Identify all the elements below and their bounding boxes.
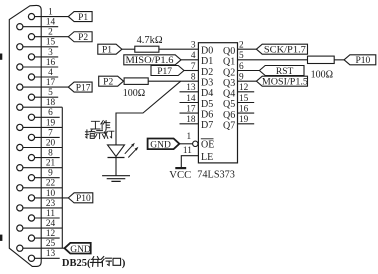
connector J1 DB25 outline [9, 5, 41, 266]
inversion bubble U1 pin 1 [193, 141, 198, 146]
svg-text:Q6: Q6 [223, 110, 235, 121]
DB25 pin 11 [28, 209, 59, 221]
svg-text:Q2: Q2 [223, 67, 235, 78]
flag MISO/P1.6 (to U1 pin 4 D1) [124, 55, 181, 65]
DB25 pin 4 [28, 68, 58, 80]
DB25 pin 19 [17, 118, 63, 130]
resistor R3 100R [308, 56, 335, 63]
wire U1 pin 6 (Q2) to RST flag [238, 70, 260, 72]
label "work indicator" line 1 (gong zuo) [91, 121, 100, 129]
wire GND flag to bubble [179, 143, 192, 145]
flag P2 (DB25 pin 2) [68, 32, 92, 42]
svg-text:12: 12 [46, 229, 56, 239]
flag GND (DB25 pin 25) [65, 243, 91, 254]
svg-text:Q7: Q7 [223, 121, 235, 132]
flag GND (to U1 pin 1 OE) [148, 139, 180, 150]
flag P1 (DB25 pin 1) [68, 12, 92, 22]
svg-text:24: 24 [46, 219, 56, 229]
DB25 pin 12 [28, 229, 59, 241]
svg-text:Q1: Q1 [223, 57, 235, 68]
svg-text:P17: P17 [76, 83, 91, 93]
svg-text:MOSI/P1.5: MOSI/P1.5 [262, 78, 308, 88]
svg-text:Q5: Q5 [223, 99, 235, 110]
DB25 pin 14 [17, 18, 59, 30]
wire R1 to U1 pin 3 (D0) [159, 48, 199, 50]
stub U1 pin 14 (D5) [180, 102, 199, 104]
svg-text:D4: D4 [201, 88, 213, 99]
svg-text:17: 17 [186, 105, 196, 115]
svg-text:14: 14 [46, 18, 56, 28]
svg-text:3: 3 [48, 48, 53, 58]
DB25 pin 15 [17, 38, 59, 50]
DB25 pin 7 [28, 128, 59, 140]
flag MOSI/P1.5 [256, 76, 307, 86]
DB25 pin 17 [17, 78, 69, 90]
svg-text:18: 18 [46, 98, 56, 108]
svg-text:7: 7 [191, 62, 196, 72]
DB25 pin 8 [28, 149, 59, 161]
DB25 pin 1 [28, 8, 68, 20]
DB25 pin 24 [17, 219, 63, 231]
svg-text:15: 15 [46, 38, 56, 48]
scan speck top [0, 54, 2, 60]
flag P17 (DB25 pin 17) [68, 82, 92, 92]
svg-text:100Ω: 100Ω [311, 69, 333, 80]
svg-text:1: 1 [48, 8, 53, 18]
DB25 pin 3 [28, 48, 58, 60]
svg-text:P2: P2 [78, 33, 88, 43]
svg-text:DB25(: DB25( [62, 257, 91, 269]
IC U1 74LS373 body [198, 43, 237, 163]
svg-text:9: 9 [48, 169, 53, 179]
svg-text:P1: P1 [78, 13, 88, 23]
svg-text:P10: P10 [76, 194, 91, 204]
DB25 pin 21 [17, 159, 63, 171]
svg-text:16: 16 [46, 58, 56, 68]
wire R3 to P10 flag [334, 59, 344, 61]
scan speck bottom [0, 235, 2, 241]
svg-text:D2: D2 [201, 67, 213, 78]
flag P2 (to R2) [99, 76, 124, 86]
svg-text:11: 11 [46, 209, 55, 219]
stub U1 pin 19 (Q7) [238, 123, 255, 125]
svg-text:23: 23 [46, 199, 56, 209]
DB25 pin 10 [28, 189, 68, 201]
svg-text:11: 11 [183, 146, 192, 156]
stub U1 pin 16 (Q6) [238, 112, 255, 114]
wire P1 to R1 [122, 48, 135, 50]
DB25 pin 9 [28, 169, 59, 181]
svg-text:17: 17 [46, 78, 56, 88]
DB25 pin 6 [28, 108, 59, 120]
svg-text:8: 8 [48, 149, 53, 159]
ground symbol [102, 176, 130, 182]
svg-text:2: 2 [48, 28, 53, 38]
wire P17 to U1 pin 7 [184, 70, 198, 72]
resistor R1 4.7k [135, 46, 159, 52]
svg-text:D0: D0 [201, 46, 213, 57]
svg-text:P10: P10 [356, 56, 371, 66]
flag P10 (right) [344, 55, 376, 65]
svg-text:22: 22 [46, 179, 56, 189]
svg-text:4: 4 [48, 68, 53, 78]
svg-text:4.7kΩ: 4.7kΩ [137, 35, 163, 46]
flag P1 (to R1) [98, 44, 122, 54]
svg-text:P2: P2 [103, 78, 113, 88]
flag RST [259, 66, 304, 76]
svg-text:D7: D7 [201, 120, 213, 131]
svg-text:5: 5 [48, 88, 53, 98]
wire junction to LED (diagonal) [116, 81, 181, 145]
svg-text:18: 18 [186, 115, 196, 125]
DB25 pin 5 [28, 88, 58, 100]
svg-text:13: 13 [186, 83, 196, 93]
DB25 pin 20 [17, 138, 63, 150]
flag P10 (DB25 pin 10) [68, 193, 93, 203]
svg-text:D6: D6 [201, 110, 213, 121]
svg-text:VCC: VCC [169, 169, 191, 181]
DB25 pin 2 [28, 28, 68, 40]
svg-text:7: 7 [48, 128, 53, 138]
wire U1 pin 11 (LE) to VCC [181, 156, 198, 168]
svg-text:LE: LE [201, 152, 213, 163]
stub U1 pin 17 (D6) [180, 112, 199, 114]
svg-text:10: 10 [46, 189, 56, 199]
svg-text:MISO/P1.6: MISO/P1.6 [126, 56, 174, 66]
svg-text:6: 6 [48, 108, 53, 118]
stub U1 pin 18 (D7) [180, 123, 199, 125]
wire U1 pin 2 (Q0) to SCK flag [238, 48, 257, 50]
svg-text:RST: RST [276, 67, 294, 77]
svg-text:100Ω: 100Ω [123, 88, 145, 99]
svg-text:19: 19 [46, 118, 56, 128]
svg-text:P17: P17 [157, 67, 172, 77]
svg-text:Q0: Q0 [223, 46, 235, 57]
DB25 pin 23 [17, 199, 63, 211]
svg-text:21: 21 [46, 159, 56, 169]
wire U1 pin 9 (Q3) to MOSI flag [238, 80, 257, 82]
svg-text:GND: GND [150, 140, 171, 150]
power VCC bar [175, 167, 186, 169]
svg-text:1: 1 [186, 132, 191, 142]
stub U1 pin 15 (Q5) [238, 102, 255, 104]
DB25 pin 16 [17, 58, 59, 70]
svg-text:D5: D5 [201, 99, 213, 110]
DB25 pin 25 [17, 239, 65, 251]
stub U1 pin 13 (D4) [180, 91, 199, 93]
flag P17 (to U1 pin 7 D2) [151, 66, 184, 76]
svg-text:D3: D3 [201, 78, 213, 89]
wire MISO to U1 pin 4 [181, 59, 198, 61]
DB25 pin 13 [28, 249, 59, 261]
label "work indicator" line 2 (zhi shi deng) [85, 130, 94, 139]
ground bus wire [61, 107, 63, 248]
svg-text:3: 3 [191, 41, 196, 51]
flag SCK/P1.7 [256, 44, 307, 54]
svg-text:): ) [122, 257, 126, 269]
svg-text:25: 25 [46, 239, 56, 249]
svg-text:SCK/P1.7: SCK/P1.7 [264, 46, 306, 56]
wire LED to ground [115, 157, 117, 175]
svg-text:20: 20 [46, 138, 56, 148]
svg-text:13: 13 [46, 249, 56, 259]
svg-text:OE: OE [201, 139, 214, 150]
DB25 pin 18 [17, 98, 63, 110]
wire R2 to U1 pin 8 (D3) [148, 80, 198, 82]
svg-text:8: 8 [191, 73, 196, 83]
svg-text:14: 14 [186, 94, 196, 104]
resistor R2 100R [124, 78, 148, 85]
svg-text:Q3: Q3 [223, 78, 235, 89]
svg-text:4: 4 [191, 51, 196, 61]
svg-text:Q4: Q4 [223, 89, 235, 100]
svg-text:74LS373: 74LS373 [197, 169, 235, 181]
svg-text:GND: GND [70, 245, 91, 255]
stub U1 pin 12 (Q4) [238, 91, 255, 93]
DB25 pin 22 [17, 179, 63, 191]
svg-text:D1: D1 [201, 56, 213, 67]
svg-text:P1: P1 [102, 46, 112, 56]
wire U1 pin 5 (Q1) to R3 [238, 59, 308, 61]
LED D1 (work indicator) [108, 143, 139, 158]
